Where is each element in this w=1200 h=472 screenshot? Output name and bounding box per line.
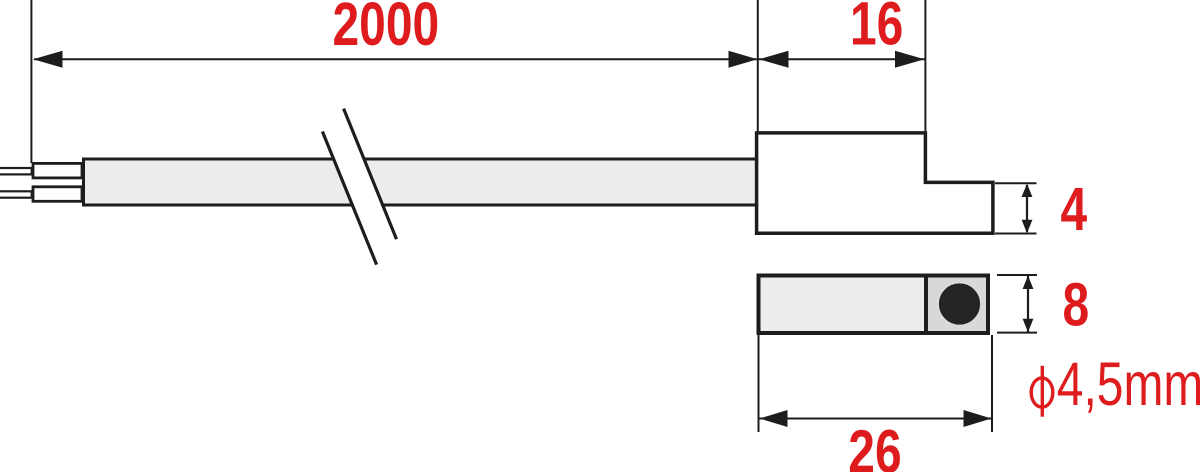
break line 2 (344, 109, 397, 240)
extension line 8 top (997, 274, 1037, 276)
dimension line 2000 (34, 58, 757, 60)
svg-text:2000: 2000 (333, 0, 440, 58)
extension line 8 bottom (997, 332, 1037, 334)
arrowhead 16 right (895, 51, 925, 68)
arrowhead 16 left (759, 51, 789, 68)
extension line left (2000 start) (30, 0, 32, 163)
phi symbol ring (1031, 378, 1053, 407)
extension line 4 top (995, 182, 1037, 184)
extension line 26 left (758, 335, 760, 432)
extension line 26 right (991, 335, 993, 432)
svg-text:26: 26 (848, 417, 901, 472)
wire lead lower bare (0, 191, 32, 197)
arrowhead 4 up (1022, 184, 1033, 198)
bottom view divider (924, 276, 928, 334)
arrowhead 8 down (1023, 319, 1034, 333)
svg-text:16: 16 (850, 0, 903, 58)
arrowhead 4 down (1022, 220, 1033, 234)
svg-text:4: 4 (1061, 174, 1088, 243)
extension line body step (924, 0, 926, 131)
bottom view housing (759, 276, 989, 334)
bottom view sensing cell (928, 278, 986, 332)
dimension line 8 (1027, 276, 1029, 332)
svg-text:4,5mm: 4,5mm (1057, 349, 1200, 418)
svg-text:8: 8 (1063, 270, 1090, 339)
arrowhead 2000 left (33, 51, 63, 68)
arrowhead 26 right (964, 410, 992, 427)
wire lead lower insulated (33, 187, 82, 202)
arrowhead 2000 right (729, 51, 758, 68)
dimension line 4 (1026, 185, 1028, 232)
extension line 4 bottom (995, 233, 1037, 235)
arrowhead 26 left (760, 410, 788, 427)
arrowhead 8 up (1023, 276, 1034, 290)
sensing hole (938, 283, 981, 326)
wire lead upper insulated (33, 163, 82, 178)
dimension line 26 (759, 418, 992, 420)
extension line cable end / body left (757, 0, 759, 131)
dimension line 16 (758, 58, 925, 60)
break line 1 (322, 132, 376, 265)
sensor body side view (757, 133, 993, 233)
phi symbol bar (1041, 366, 1044, 417)
cable (84, 159, 761, 205)
cable break gap (322, 109, 396, 265)
wire lead upper bare (0, 168, 32, 174)
